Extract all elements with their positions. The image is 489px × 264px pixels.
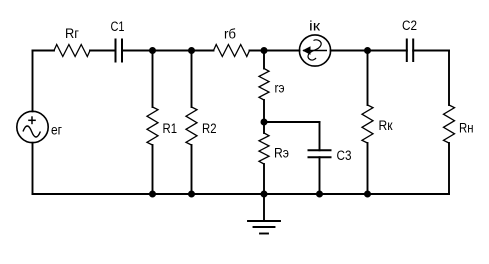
resistor rб (base resistance) [214, 45, 250, 57]
wire rб to current source (through node 3) [250, 50, 300, 52]
resistor Rг (generator resistance) [54, 45, 90, 57]
wire middle node to C3 branch [264, 121, 320, 123]
wire Rк to bottom rail [367, 143, 369, 194]
wire C3 to bottom rail [319, 157, 321, 194]
node dot 4 (top of Rк) [364, 47, 371, 54]
svg-text:iк: iк [309, 19, 320, 34]
svg-text:R1: R1 [163, 121, 178, 136]
wire Rэ to bottom rail [263, 164, 265, 194]
wire Rн to bottom rail [448, 143, 450, 194]
node dot bottom of R1 [149, 191, 156, 198]
node dot bottom of R2 [188, 191, 195, 198]
svg-text:Rг: Rг [65, 26, 79, 41]
node dot bottom of C3 [316, 191, 323, 198]
wire Rк column top [367, 51, 369, 106]
resistor Rк (collector) [362, 105, 373, 143]
wire current source to C2 (through node 4) [331, 50, 407, 52]
ground symbol [248, 194, 280, 234]
node dot middle (emitter node) [261, 119, 268, 126]
resistor rэ (emitter resistance) [259, 69, 269, 101]
current source iк [299, 35, 330, 66]
wire R1 column top [152, 51, 154, 108]
svg-text:C3: C3 [337, 148, 352, 163]
capacitor C1 [116, 39, 123, 63]
wire C3 branch down [319, 122, 321, 150]
wire C1 to rб (through nodes 1,2) [122, 50, 214, 52]
node dot 3 (top of rэ) [261, 47, 268, 54]
svg-text:Rэ: Rэ [274, 146, 289, 161]
svg-text:ег: ег [51, 123, 62, 138]
wire left column top [32, 51, 34, 112]
wire R2 column top [191, 51, 193, 108]
node dot 2 (top of R2) [188, 47, 195, 54]
svg-text:Rн: Rн [459, 121, 474, 136]
wire R2 to bottom rail [191, 145, 193, 194]
svg-text:C2: C2 [402, 18, 417, 33]
resistor Rэ [259, 133, 269, 164]
node dot bottom of Rк [364, 191, 371, 198]
resistor Rн (load) [444, 105, 455, 143]
node dot 1 (top of R1) [149, 47, 156, 54]
svg-text:C1: C1 [111, 19, 125, 34]
wire bottom rail [33, 193, 450, 195]
wire left column bottom [32, 143, 34, 194]
voltage source ег (generator EMF) [17, 111, 48, 142]
svg-text:R2: R2 [202, 121, 217, 136]
capacitor C3 [308, 150, 332, 157]
wire top rail left segment [33, 50, 55, 52]
svg-text:rэ: rэ [275, 81, 285, 96]
wire node 3 down to rэ [263, 51, 265, 69]
wire C2 to right corner [413, 50, 449, 52]
svg-text:Rк: Rк [379, 118, 393, 133]
svg-text:rб: rб [224, 27, 236, 42]
capacitor C2 [407, 39, 413, 63]
wire R1 to bottom rail [152, 145, 154, 194]
wire Rг to C1 [90, 50, 116, 52]
resistor R1 [147, 107, 158, 145]
node dot bottom (ground node) [261, 191, 268, 198]
wire right column top (to Rн) [448, 51, 450, 106]
resistor R2 [186, 107, 197, 145]
wire rэ to middle node [263, 100, 265, 133]
